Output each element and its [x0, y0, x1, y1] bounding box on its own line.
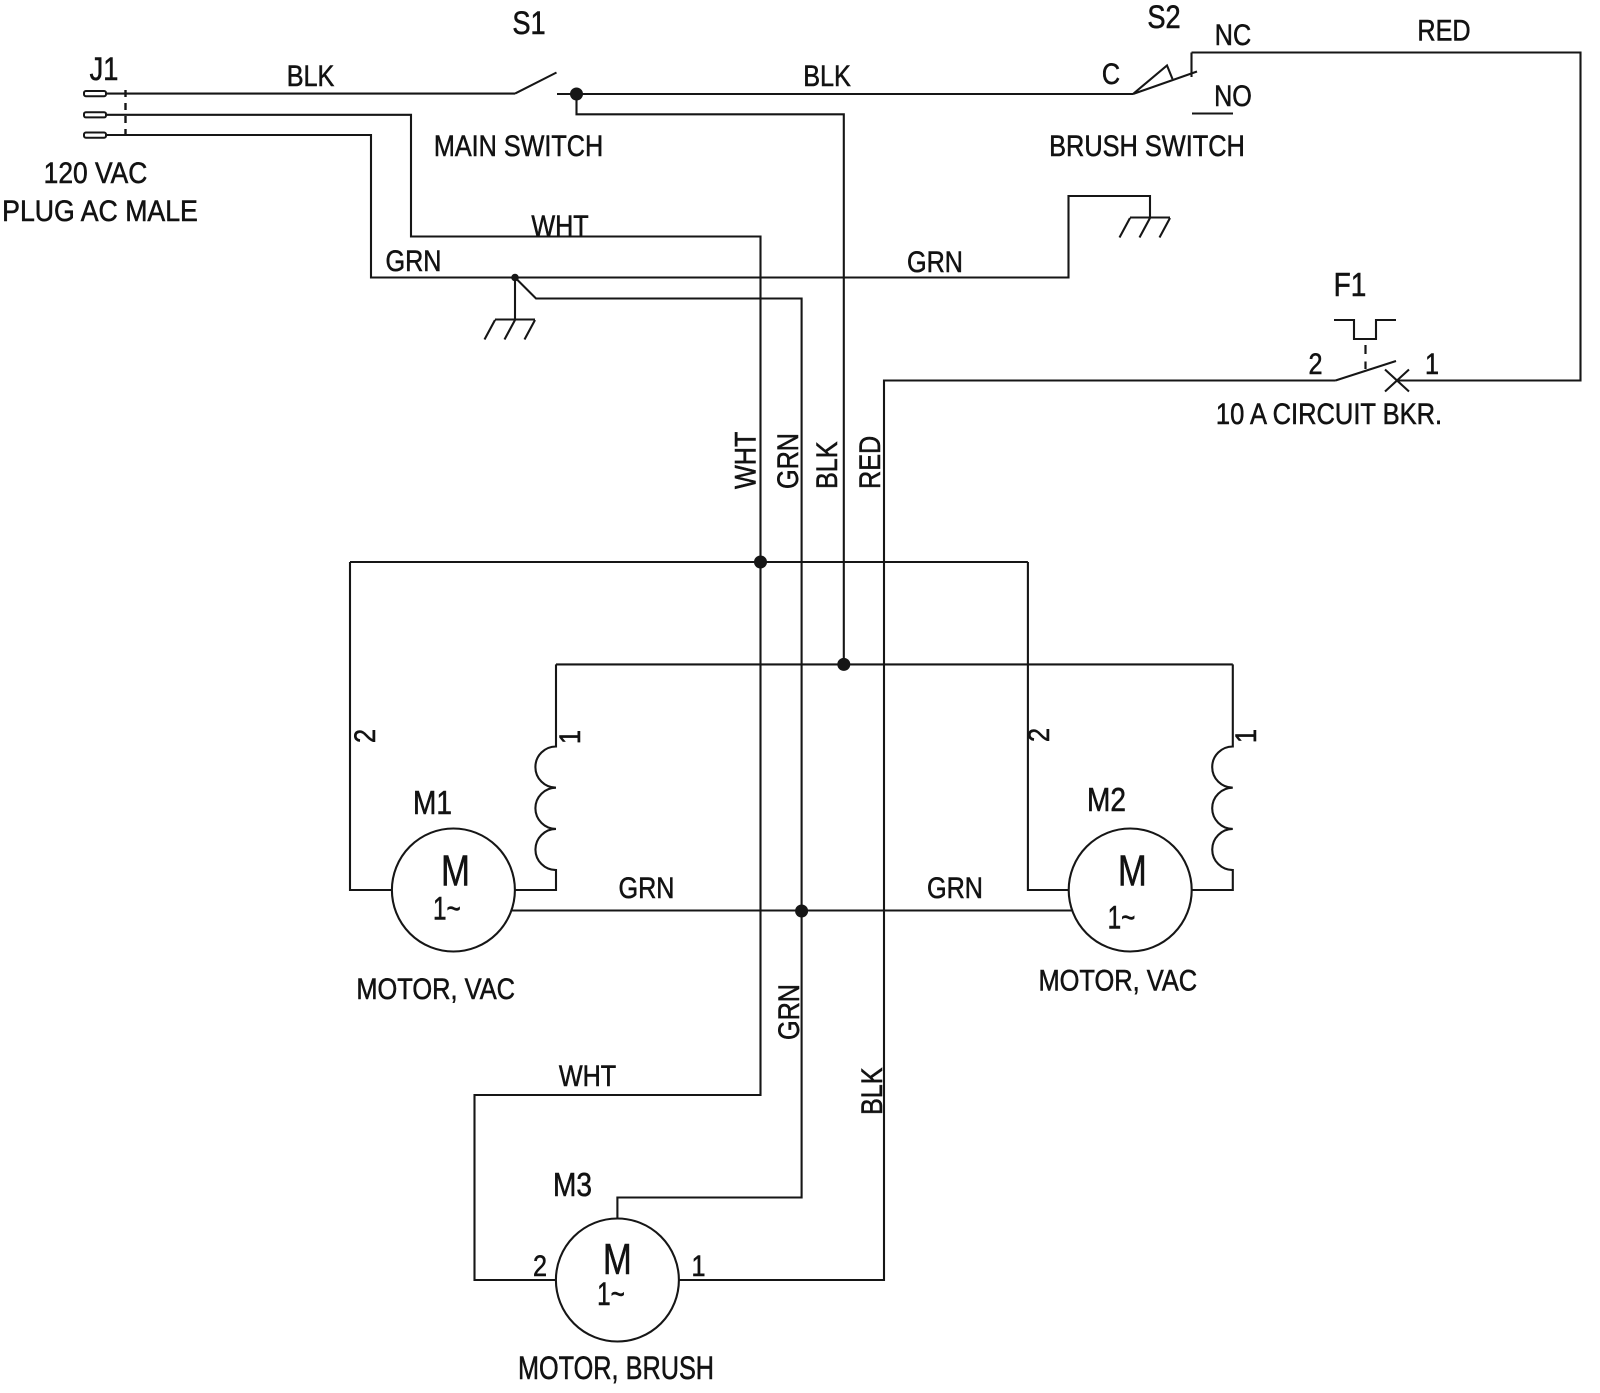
- svg-text:1: 1: [553, 730, 587, 744]
- wire coil feed between M1 coil and M2 coil: [556, 663, 1233, 665]
- connector J1 plug prongs: [84, 90, 126, 139]
- svg-text:1~: 1~: [597, 1277, 625, 1313]
- svg-text:MAIN SWITCH: MAIN SWITCH: [434, 129, 603, 163]
- switch S1 blade: [515, 73, 557, 94]
- breaker F1 dashed actuator: [1364, 345, 1366, 369]
- ground chassis symbol 2: [1120, 218, 1171, 238]
- svg-text:S1: S1: [512, 6, 545, 42]
- motor M3 circle: [556, 1219, 679, 1342]
- svg-text:F1: F1: [1334, 267, 1367, 304]
- node junction BLK on coil feed: [837, 658, 850, 671]
- svg-text:GRN: GRN: [386, 244, 442, 278]
- S2 NO contact: [1192, 112, 1233, 114]
- svg-text:M1: M1: [413, 785, 452, 822]
- wire from S1 to S2 common: [557, 93, 1133, 95]
- svg-text:1~: 1~: [433, 891, 461, 927]
- motor M2 circle: [1069, 829, 1192, 952]
- switch S2 blade with arrow: [1133, 66, 1197, 95]
- breaker F1 X contact: [1385, 370, 1409, 392]
- svg-text:NC: NC: [1215, 18, 1251, 52]
- S2 NC contact: [1190, 53, 1192, 78]
- svg-text:M: M: [1118, 847, 1147, 896]
- svg-text:BLK: BLK: [855, 1067, 889, 1115]
- wire GRN between M1 and M2: [511, 909, 1072, 911]
- svg-text:MOTOR, VAC: MOTOR, VAC: [1038, 964, 1197, 997]
- wire M2 pin2 drop: [1028, 562, 1069, 890]
- node junction GRN: [795, 905, 808, 918]
- node GRN ground junction: [511, 274, 519, 282]
- wire WHT from J1 pin2: [106, 115, 761, 1280]
- wire BLK branch from S1 junction down to coil feed: [577, 94, 844, 664]
- wire RED from S2 NC to F1 pin1: [1192, 53, 1581, 381]
- svg-text:M3: M3: [553, 1167, 592, 1204]
- svg-text:1: 1: [1229, 729, 1263, 743]
- svg-text:M2: M2: [1087, 782, 1126, 819]
- svg-text:S2: S2: [1147, 0, 1180, 36]
- svg-text:MOTOR, BRUSH: MOTOR, BRUSH: [518, 1351, 714, 1387]
- svg-text:J1: J1: [90, 52, 119, 88]
- inductor M2 coil: [1192, 664, 1233, 890]
- wire M1 pin2 drop: [350, 562, 392, 890]
- svg-text:GRN: GRN: [772, 984, 806, 1040]
- svg-text:1: 1: [1425, 347, 1439, 381]
- svg-text:2: 2: [1308, 347, 1322, 381]
- node junction at S1 output: [570, 88, 583, 101]
- svg-text:BLK: BLK: [287, 59, 335, 93]
- motor M1 circle: [392, 829, 515, 952]
- svg-text:2: 2: [348, 729, 382, 743]
- svg-text:GRN: GRN: [907, 245, 963, 279]
- breaker F1 thermal element: [1334, 320, 1396, 339]
- svg-text:NO: NO: [1214, 79, 1252, 113]
- wire BLK from J1 pin1 to S1: [106, 93, 515, 95]
- svg-text:PLUG AC MALE: PLUG AC MALE: [2, 195, 198, 229]
- svg-text:GRN: GRN: [927, 871, 983, 905]
- inductor M1 coil: [515, 664, 556, 890]
- wire GRN from J1 pin3: [106, 135, 1150, 278]
- svg-text:C: C: [1102, 57, 1120, 91]
- svg-text:WHT: WHT: [728, 432, 762, 489]
- svg-text:GRN: GRN: [619, 871, 675, 905]
- svg-text:RED: RED: [1417, 13, 1470, 47]
- svg-text:BLK: BLK: [810, 441, 844, 489]
- svg-text:1~: 1~: [1108, 900, 1136, 936]
- svg-text:M: M: [441, 847, 470, 896]
- svg-text:GRN: GRN: [771, 433, 805, 489]
- ground chassis symbol 1: [485, 278, 536, 340]
- svg-text:WHT: WHT: [531, 209, 588, 243]
- svg-text:120 VAC: 120 VAC: [44, 155, 148, 189]
- node junction WHT: [754, 556, 767, 569]
- breaker F1 blade: [1336, 361, 1397, 381]
- svg-text:BRUSH SWITCH: BRUSH SWITCH: [1049, 129, 1245, 162]
- wire loop top between M1 pin2 and M2 pin2: [350, 561, 1028, 563]
- svg-text:BLK: BLK: [803, 59, 851, 93]
- wire GRN branch diagonal to vertical GRN: [515, 278, 802, 1219]
- svg-text:1: 1: [691, 1249, 705, 1283]
- wire RED from F1 pin2 to M3 pin1: [679, 381, 1336, 1281]
- svg-text:WHT: WHT: [559, 1059, 616, 1093]
- svg-text:2: 2: [1022, 728, 1056, 742]
- svg-text:10 A CIRCUIT BKR.: 10 A CIRCUIT BKR.: [1216, 397, 1442, 430]
- svg-text:2: 2: [533, 1249, 547, 1283]
- svg-text:MOTOR, VAC: MOTOR, VAC: [356, 972, 515, 1005]
- svg-text:RED: RED: [853, 436, 887, 489]
